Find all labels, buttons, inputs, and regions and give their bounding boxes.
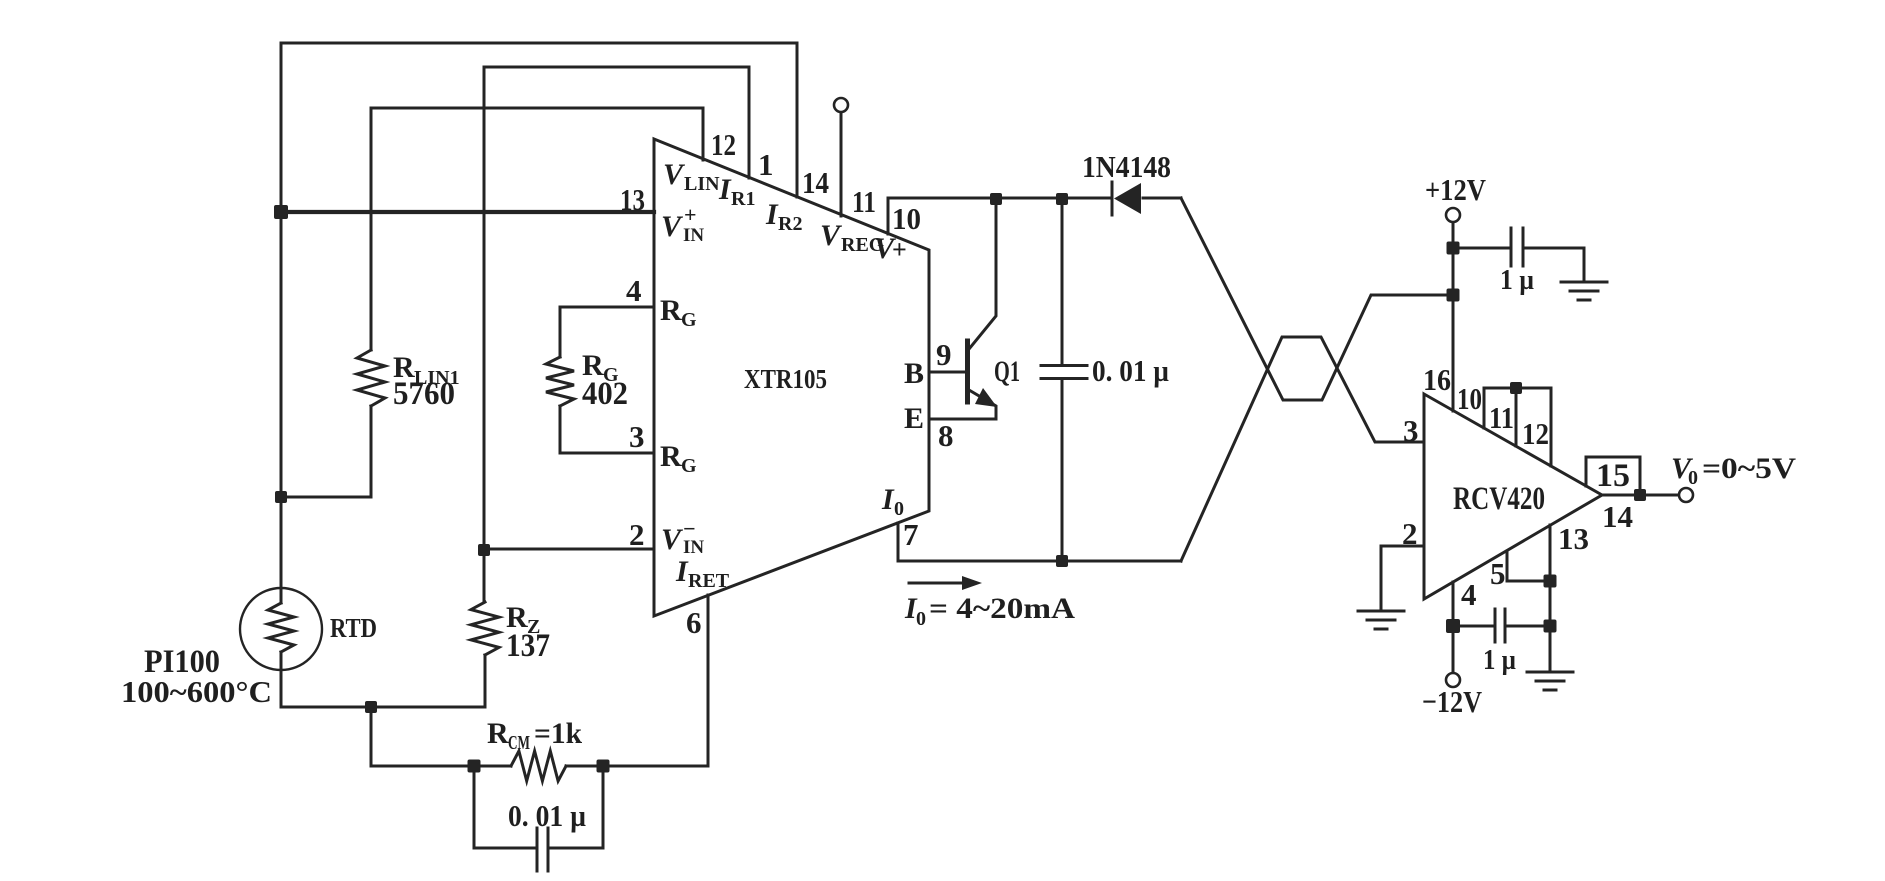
svg-text:2: 2 bbox=[1402, 516, 1418, 551]
svg-text:XTR105: XTR105 bbox=[744, 364, 827, 394]
svg-text:16: 16 bbox=[1423, 362, 1451, 397]
svg-text:IN: IN bbox=[683, 225, 704, 246]
svg-text:1N4148: 1N4148 bbox=[1082, 149, 1171, 184]
svg-text:0. 01 µ: 0. 01 µ bbox=[1092, 353, 1169, 388]
svg-text:6: 6 bbox=[686, 605, 702, 640]
svg-text:14: 14 bbox=[1602, 499, 1633, 534]
svg-text:= 4~20mA: = 4~20mA bbox=[929, 592, 1075, 625]
svg-text:+12V: +12V bbox=[1425, 172, 1487, 207]
svg-text:0. 01 µ: 0. 01 µ bbox=[508, 798, 586, 833]
svg-text:8: 8 bbox=[938, 418, 954, 453]
svg-text:R: R bbox=[487, 717, 509, 750]
svg-text:4: 4 bbox=[626, 273, 642, 308]
svg-text:11: 11 bbox=[1489, 400, 1514, 435]
svg-text:4: 4 bbox=[1461, 577, 1477, 612]
svg-text:1: 1 bbox=[758, 147, 774, 182]
svg-text:12: 12 bbox=[1522, 416, 1549, 451]
svg-text:12: 12 bbox=[711, 127, 736, 162]
svg-text:0: 0 bbox=[894, 498, 904, 520]
svg-text:5760: 5760 bbox=[393, 376, 455, 412]
svg-text:CM: CM bbox=[508, 732, 530, 754]
svg-text:LIN: LIN bbox=[684, 173, 720, 195]
svg-text:G: G bbox=[681, 309, 697, 331]
svg-text:14: 14 bbox=[802, 165, 829, 200]
svg-text:2: 2 bbox=[629, 517, 645, 552]
svg-text:I: I bbox=[765, 198, 779, 231]
svg-text:RTD: RTD bbox=[330, 613, 377, 643]
svg-text:0: 0 bbox=[916, 608, 926, 630]
svg-text:7: 7 bbox=[903, 517, 919, 552]
svg-text:0: 0 bbox=[1688, 467, 1698, 489]
svg-text:5: 5 bbox=[1490, 556, 1506, 591]
svg-text:+: + bbox=[684, 202, 697, 227]
svg-text:−12V: −12V bbox=[1422, 684, 1483, 719]
svg-text:402: 402 bbox=[582, 376, 628, 412]
svg-text:R1: R1 bbox=[731, 188, 755, 210]
svg-text:R: R bbox=[660, 440, 682, 473]
svg-text:1 µ: 1 µ bbox=[1483, 644, 1516, 676]
svg-text:13: 13 bbox=[1558, 521, 1589, 556]
svg-text:I: I bbox=[718, 173, 732, 206]
svg-text:R: R bbox=[660, 294, 682, 327]
svg-text:13: 13 bbox=[620, 182, 645, 217]
svg-text:1 µ: 1 µ bbox=[1500, 264, 1534, 296]
svg-text:3: 3 bbox=[629, 419, 645, 454]
svg-text:I: I bbox=[881, 483, 895, 516]
svg-text:3: 3 bbox=[1403, 413, 1419, 448]
svg-text:=1k: =1k bbox=[534, 717, 582, 750]
svg-text:R2: R2 bbox=[778, 213, 802, 235]
svg-text:RCV420: RCV420 bbox=[1453, 481, 1545, 517]
svg-text:V: V bbox=[663, 158, 686, 191]
svg-text:=0~5V: =0~5V bbox=[1702, 452, 1796, 485]
svg-text:15: 15 bbox=[1596, 458, 1630, 494]
svg-text:RET: RET bbox=[688, 570, 730, 592]
svg-text:V: V bbox=[661, 523, 684, 556]
svg-text:I: I bbox=[675, 555, 689, 588]
svg-text:10: 10 bbox=[1457, 381, 1482, 416]
svg-text:11: 11 bbox=[852, 184, 876, 219]
svg-text:G: G bbox=[681, 455, 697, 477]
svg-text:Q1: Q1 bbox=[994, 355, 1020, 388]
svg-text:B: B bbox=[904, 357, 924, 390]
svg-text:E: E bbox=[904, 402, 924, 435]
svg-text:10: 10 bbox=[892, 201, 921, 236]
svg-text:V: V bbox=[661, 210, 684, 243]
svg-text:+: + bbox=[892, 235, 907, 264]
svg-text:137: 137 bbox=[506, 628, 550, 664]
svg-text:V: V bbox=[820, 219, 843, 252]
svg-text:100~600°C: 100~600°C bbox=[121, 674, 272, 709]
svg-text:9: 9 bbox=[936, 337, 952, 372]
